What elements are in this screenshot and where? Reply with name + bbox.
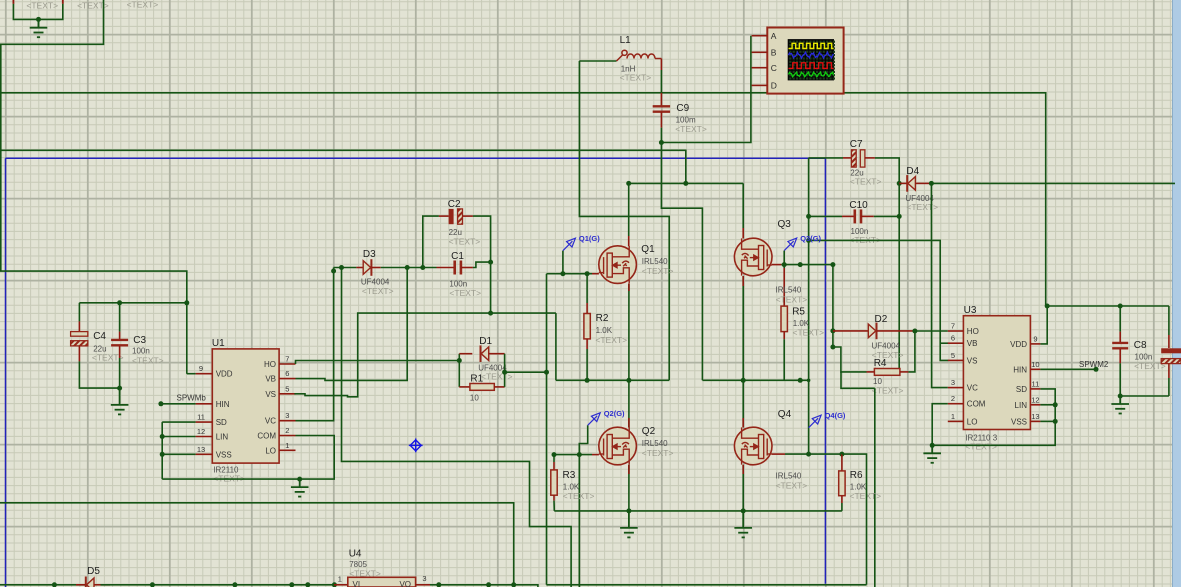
wire U3 VDD up (1040, 306, 1047, 344)
wire C2 riser (423, 216, 439, 267)
capacitor C7 (843, 157, 851, 159)
node probe Q3 (782, 262, 787, 267)
sheet border (blue) (6, 157, 826, 159)
node bottom rail x152 (150, 582, 155, 587)
wire zigzag mid (342, 268, 572, 587)
node C3 top (117, 300, 122, 305)
svg-text:1.0K: 1.0K (596, 326, 613, 335)
svg-text:C8: C8 (1134, 340, 1147, 351)
svg-text:D5: D5 (87, 566, 100, 577)
svg-text:VB: VB (265, 375, 276, 384)
transistor Q3 IRL540 (734, 238, 772, 276)
svg-text:6: 6 (285, 369, 289, 378)
node Q3S-Q4D (741, 378, 746, 383)
svg-text:VC: VC (967, 384, 978, 393)
node C1-C2 right (488, 260, 493, 265)
node Q2 source gnd (626, 508, 631, 513)
probe Q2(G) (588, 413, 601, 426)
wire Q1 source to Q2 drain (628, 284, 630, 428)
wire U3 LIN link (1040, 404, 1055, 406)
wire U1 HO to D1/R1 (296, 361, 460, 365)
pin U3 VSS (1030, 420, 1040, 422)
svg-text:D2: D2 (875, 314, 888, 325)
svg-text:Q3: Q3 (778, 219, 792, 230)
wire R6 node to bottom rail (842, 454, 867, 585)
wire to U3 VB (940, 342, 948, 344)
pin U1 SD (196, 421, 213, 423)
svg-text:11: 11 (1032, 379, 1040, 388)
svg-text:VS: VS (967, 356, 978, 365)
wire U1 VB bootstrap (296, 268, 408, 381)
node Q3 gate right (830, 262, 835, 267)
wire bottom rail left (0, 584, 85, 586)
pin Q3 gate (772, 264, 781, 266)
svg-text:C1: C1 (451, 251, 464, 262)
svg-text:<TEXT>: <TEXT> (349, 569, 381, 579)
svg-text:HIN: HIN (216, 400, 230, 409)
wire left edge vertical (0, 44, 2, 271)
svg-text:D: D (771, 81, 777, 91)
resistor R3 (553, 455, 555, 462)
wire C3C4 top (79, 302, 186, 304)
wire Q4 source (742, 465, 744, 511)
svg-text:C: C (771, 63, 777, 73)
wire Q2 gate net (554, 454, 592, 456)
resistor R2 (586, 274, 588, 303)
wire C9 bottom (660, 128, 662, 143)
wire C9 branch down (661, 143, 702, 381)
transistor Q4 IRL540 (734, 427, 772, 465)
marker cursor diamond (409, 439, 423, 453)
wire rail W2 (0, 150, 686, 183)
svg-text:2: 2 (285, 426, 289, 435)
svg-text:L1: L1 (620, 35, 632, 46)
pin scope B (752, 51, 768, 53)
svg-text:<TEXT>: <TEXT> (620, 73, 652, 83)
node bottom rail x489 (486, 582, 491, 587)
wire Q3 gate net (781, 264, 833, 266)
oscilloscope (767, 28, 843, 94)
probe Q4(G) (809, 415, 822, 428)
node D4 right (929, 181, 934, 186)
svg-text:<TEXT>: <TEXT> (642, 266, 674, 276)
pin U1 VS (279, 393, 295, 395)
node R2 bottom (585, 378, 590, 383)
svg-text:COM: COM (257, 432, 276, 441)
svg-text:3: 3 (951, 378, 955, 387)
ground Q4 (734, 511, 752, 538)
node C3C4 ground (117, 386, 122, 391)
wire U1 SD link (162, 421, 195, 423)
wire probe Q2 stem (579, 425, 587, 454)
wire to scope A (661, 36, 751, 143)
svg-text:2: 2 (951, 394, 955, 403)
svg-text:3: 3 (422, 574, 426, 583)
svg-text:Q1: Q1 (641, 244, 655, 255)
svg-text:Q4: Q4 (778, 409, 792, 420)
wire R5 bottom (783, 339, 785, 380)
capacitor C2 (439, 215, 449, 217)
node C2 riser (420, 265, 425, 270)
wire U3 COM to ground (932, 404, 948, 446)
node R6 top (839, 452, 844, 457)
svg-text:1: 1 (338, 575, 342, 584)
node probe Q2 (577, 452, 582, 457)
pin U1 VB (279, 378, 295, 380)
wire D3 to C1 (381, 267, 437, 269)
wire D1R1 right vertical (504, 354, 506, 387)
wire U3 HIN / SPWM2 terminal (1040, 368, 1096, 370)
wire U3 SD/LIN/VSS chain (932, 389, 1055, 445)
wire D2R4 right link (908, 331, 915, 372)
ground U1 (291, 479, 309, 497)
capacitor C1 (437, 267, 455, 269)
node bottom rail x308 (305, 582, 310, 587)
svg-text:HIN: HIN (1013, 365, 1027, 374)
pin U1 HIN (196, 403, 213, 405)
transistor Q2 IRL540 (599, 427, 637, 465)
wire L1 right lead (660, 59, 662, 71)
node bottom rail x292 (289, 582, 294, 587)
svg-text:<TEXT>: <TEXT> (850, 491, 882, 501)
wire L1 left branch down (579, 61, 669, 380)
wire Q4 gate net (785, 453, 842, 455)
node Q3 gate mid (798, 262, 803, 267)
wire ground rail mid (Q2/Q4 sources) (554, 510, 842, 512)
pin U1 COM (279, 435, 295, 437)
pin U3 SD (1030, 388, 1040, 390)
diode D2 (833, 330, 868, 332)
svg-text:LO: LO (967, 417, 978, 426)
svg-text:LO: LO (265, 446, 276, 455)
svg-text:C3: C3 (133, 335, 146, 346)
wire Q3 source to Q4 drain (742, 276, 744, 427)
svg-text:IRL540: IRL540 (776, 286, 802, 295)
wire C7 right down (875, 158, 899, 372)
pin U3 VC (948, 387, 964, 389)
wire probe Q1 stem (562, 251, 564, 274)
svg-text:IRL540: IRL540 (642, 257, 668, 266)
node U1 LIN (160, 434, 165, 439)
svg-text:5: 5 (951, 351, 955, 360)
capacitor C4 (78, 303, 80, 322)
svg-text:<TEXT>: <TEXT> (449, 237, 481, 247)
wire Q1 gate net (547, 273, 593, 275)
wire U1 LIN link (162, 436, 195, 438)
svg-text:U4: U4 (349, 549, 362, 560)
node U1 ground (297, 477, 302, 482)
transistor Q1 IRL540 (599, 246, 637, 284)
svg-text:<TEXT>: <TEXT> (642, 448, 674, 458)
wire top-left L (0, 0, 104, 44)
wire VDD top right (1046, 305, 1169, 307)
node C8 top (1118, 304, 1123, 309)
svg-text:10: 10 (1031, 360, 1039, 369)
svg-text:C7: C7 (850, 139, 863, 150)
ground C3C4 (111, 388, 129, 414)
node R4 branch (830, 345, 835, 350)
ground C8 (1111, 396, 1129, 414)
svg-text:LIN: LIN (1015, 401, 1028, 410)
node D4 left (897, 181, 902, 186)
node D1R1 right (544, 370, 549, 375)
svg-text:R1: R1 (470, 374, 483, 385)
svg-text:<TEXT>: <TEXT> (872, 386, 904, 396)
pin U3 COM (948, 403, 964, 405)
node U3 VSS (1053, 419, 1058, 424)
pin stub top-left 1 (12, 0, 14, 4)
svg-text:<TEXT>: <TEXT> (127, 0, 159, 10)
svg-text:C10: C10 (849, 200, 868, 211)
wire D3 row (334, 267, 357, 269)
node D1R1 left (457, 358, 462, 363)
node Q4 source gnd (741, 508, 746, 513)
svg-text:9: 9 (1033, 334, 1037, 343)
pin U3 LO (948, 420, 964, 422)
svg-text:Q3(G): Q3(G) (800, 234, 821, 243)
svg-text:<TEXT>: <TEXT> (563, 491, 595, 501)
svg-text:IRL540: IRL540 (642, 439, 668, 448)
node top-left junction (36, 17, 41, 22)
svg-text:D3: D3 (363, 249, 376, 260)
resistor R6 (841, 454, 843, 471)
node bottom rail x514 (511, 582, 516, 587)
svg-text:<TEXT>: <TEXT> (449, 288, 481, 298)
node U3 ground (930, 443, 935, 448)
svg-text:12: 12 (1031, 395, 1039, 404)
node R5 bottom (798, 378, 803, 383)
svg-text:Q2: Q2 (642, 426, 656, 437)
pin U3 LIN (1030, 404, 1040, 406)
wire U1 SD/LIN/VSS chain (161, 422, 163, 479)
node D2 right / U3 HO (912, 329, 917, 334)
wire C7 left (809, 157, 843, 159)
svg-text:7: 7 (951, 322, 955, 331)
node C8 bottom (1118, 394, 1123, 399)
wire Q2 source (628, 465, 630, 511)
node probe Q1 (560, 271, 565, 276)
node bottom rail x54 (52, 582, 57, 587)
wire U1 VDD feed (0, 271, 187, 374)
svg-text:Q1(G): Q1(G) (579, 234, 600, 243)
wire gate net vertical x546 (546, 274, 548, 585)
node rail riser (339, 265, 344, 270)
wire probe Q3 stem (783, 251, 785, 265)
svg-text:U1: U1 (212, 338, 225, 349)
ground top-left (30, 20, 48, 37)
wire U1 VDD link (187, 373, 196, 375)
wire bottom rail mid (430, 585, 538, 587)
node SPWMb terminal (158, 401, 163, 406)
pin scope C (752, 67, 768, 69)
svg-text:HO: HO (264, 360, 276, 369)
scope trace D (green) (789, 72, 834, 77)
wire VS rail (Q1 source) (556, 379, 669, 381)
svg-text:R2: R2 (596, 313, 609, 324)
svg-text:<TEXT>: <TEXT> (675, 124, 707, 134)
diode D3 (356, 267, 364, 269)
pin U1 VC (279, 420, 295, 422)
pin U1 LIN (196, 436, 213, 438)
wire to gate net (505, 371, 547, 373)
node x808 y240 (806, 238, 811, 243)
wire Q3 source rail (702, 379, 808, 381)
wire U1 VSS link (162, 453, 195, 455)
node VDD rail (1045, 304, 1050, 309)
node U3 LIN (1053, 402, 1058, 407)
scope trace A (yellow) (789, 43, 834, 48)
svg-text:Q2(G): Q2(G) (604, 409, 625, 418)
node W2-W3 junction (683, 181, 688, 186)
wire U1 VC up (296, 268, 334, 421)
svg-text:SD: SD (1016, 385, 1027, 394)
pin Q4 gate (772, 453, 785, 455)
svg-text:1: 1 (951, 412, 955, 421)
node Q1 drain junction (626, 181, 631, 186)
node Q1S-Q2D (626, 378, 631, 383)
wire bottom rail right (546, 584, 866, 586)
svg-text:12: 12 (197, 427, 205, 436)
IC U1 IR2110 (212, 349, 279, 463)
svg-text:VSS: VSS (1011, 417, 1027, 426)
svg-text:D4: D4 (906, 166, 919, 177)
scope trace B (blue) (789, 52, 834, 58)
wire HO2 vertical x808 (808, 158, 810, 454)
wire U1 HIN / SPWMb terminal (161, 403, 196, 405)
capacitor C11 (edge electrolytic) (1168, 306, 1170, 335)
svg-text:5: 5 (285, 384, 289, 393)
pin U3 VDD (1030, 343, 1040, 345)
wire D1R1 left vertical (458, 354, 460, 387)
svg-text:13: 13 (197, 445, 205, 454)
svg-text:VDD: VDD (216, 370, 233, 379)
wire Q3 drain (742, 183, 744, 228)
scope trace C (red) (789, 63, 834, 69)
wire U3 VSS link (1040, 420, 1055, 422)
wire to U3 HO (915, 330, 948, 332)
svg-text:R5: R5 (792, 307, 805, 318)
wire VCC rail W1 (0, 93, 1046, 306)
svg-text:SPWMb: SPWMb (177, 394, 207, 403)
resistor R1 (459, 386, 470, 388)
pin scope D (752, 84, 768, 86)
pin U3 VB (948, 342, 964, 344)
svg-text:R3: R3 (563, 470, 576, 481)
capacitor C9 (660, 93, 662, 106)
node D1R1 mid (502, 370, 507, 375)
wire C1 right jog (473, 262, 491, 267)
diode D5 (76, 584, 86, 586)
wire VS descender (555, 313, 557, 380)
pin U4 VO (416, 584, 430, 586)
capacitor C10 (809, 215, 842, 217)
svg-text:<TEXT>: <TEXT> (793, 328, 825, 338)
resistor R5 (783, 265, 785, 268)
svg-text:C9: C9 (676, 103, 689, 114)
svg-text:SPWM2: SPWM2 (1079, 360, 1109, 369)
svg-text:VDD: VDD (1010, 340, 1027, 349)
svg-text:C4: C4 (93, 331, 106, 342)
node VDD/C3C4 junction (184, 300, 189, 305)
svg-text:10: 10 (470, 394, 479, 403)
svg-text:Q4(G): Q4(G) (825, 411, 846, 420)
pin U1 LO (279, 449, 295, 451)
diode D4 (899, 182, 907, 184)
capacitor C3 (119, 303, 121, 332)
node R2 top (585, 271, 590, 276)
svg-text:<TEXT>: <TEXT> (906, 202, 938, 212)
svg-text:LIN: LIN (216, 433, 229, 442)
svg-text:IRL540: IRL540 (776, 472, 802, 481)
wire x874 to bottom (874, 388, 876, 587)
pin scope A (752, 35, 768, 37)
node Q4 gate drive (806, 452, 811, 457)
svg-text:<TEXT>: <TEXT> (132, 356, 164, 366)
wire x579 down (578, 455, 580, 587)
pin U1 HO (279, 363, 295, 365)
node VB riser (405, 265, 410, 270)
svg-text:<TEXT>: <TEXT> (362, 286, 394, 296)
node R3 top (552, 452, 557, 457)
wire Q3 gate down to D2 (832, 265, 834, 347)
svg-text:<TEXT>: <TEXT> (776, 481, 808, 491)
wire C8 to C11 (1120, 395, 1169, 397)
svg-text:SD: SD (216, 418, 227, 427)
svg-text:B: B (771, 48, 777, 58)
svg-text:100n: 100n (132, 347, 150, 356)
pin U3 HO (948, 330, 964, 332)
svg-text:VI: VI (353, 580, 361, 587)
wire D4 output right (931, 182, 1175, 184)
svg-text:11: 11 (197, 413, 205, 422)
wire Q1 drain (628, 183, 630, 236)
svg-text:A: A (771, 31, 777, 41)
node U1 VSS (160, 452, 165, 457)
probe Q1(G) (563, 238, 576, 251)
ground U3 (923, 445, 941, 463)
wire D4 to U3 VC (931, 183, 947, 387)
svg-text:<TEXT>: <TEXT> (26, 1, 58, 11)
node C10 right (897, 214, 902, 219)
svg-text:R6: R6 (850, 470, 863, 481)
pin U3 HIN (1030, 368, 1040, 370)
svg-text:13: 13 (1031, 412, 1039, 421)
wire bottom rail to U4 (101, 584, 335, 586)
svg-text:VSS: VSS (216, 450, 232, 459)
svg-text:9: 9 (199, 364, 203, 373)
node D2 left (830, 328, 835, 333)
svg-text:R4: R4 (874, 358, 887, 369)
wire rail A (0, 503, 514, 585)
probe Q3(G) (784, 238, 797, 251)
node C2 bottom (488, 311, 493, 316)
svg-text:D1: D1 (479, 336, 492, 347)
svg-text:VB: VB (967, 339, 978, 348)
pin stub top-left 2 (62, 0, 64, 4)
IC U4 7805 (334, 584, 348, 586)
wire to U3 VS (809, 240, 949, 360)
wire W3 drain rail (629, 182, 744, 184)
svg-text:VO: VO (399, 580, 411, 587)
svg-text:VS: VS (265, 390, 276, 399)
pin U1 VSS (196, 453, 213, 455)
node C10 left (806, 214, 811, 219)
node SPWM2 terminal (1094, 367, 1099, 372)
diode D1 (459, 353, 472, 355)
ground Q2 (620, 511, 638, 538)
wire U1 VS (294, 313, 556, 397)
wire top-left box (13, 4, 62, 20)
